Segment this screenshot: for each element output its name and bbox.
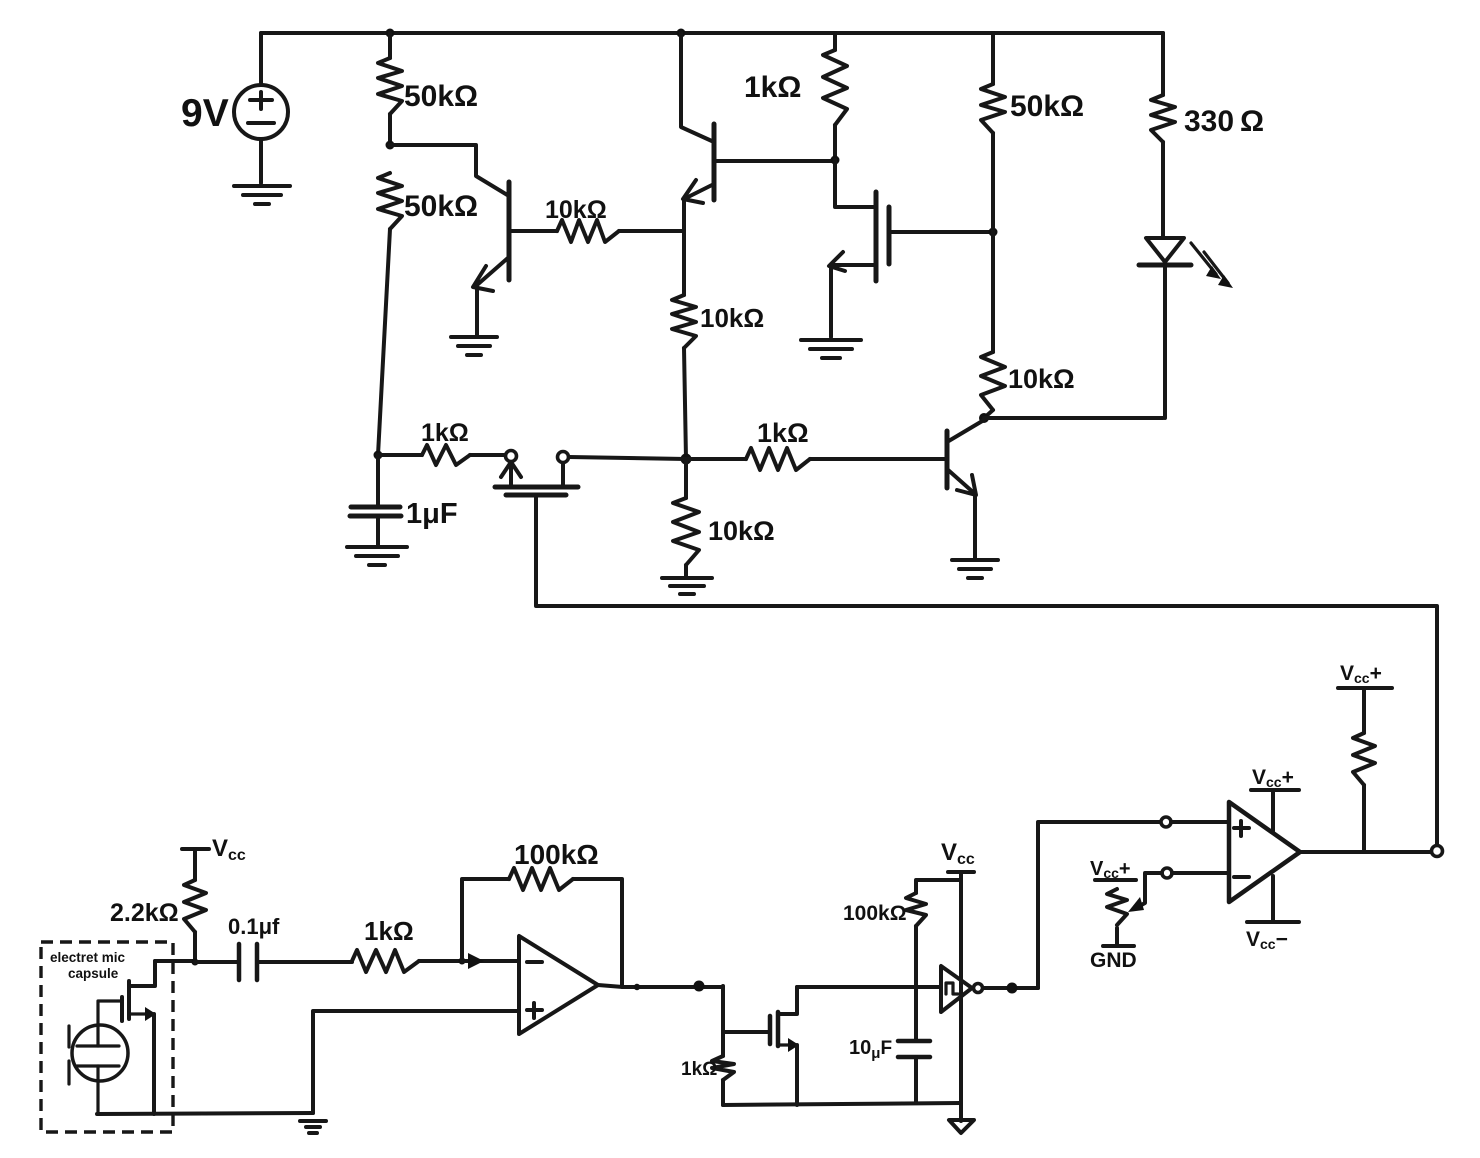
wire R12 to node J <box>193 932 197 962</box>
svg-text:1kΩ: 1kΩ <box>681 1059 717 1080</box>
wire Vcc down through schmitt to gnd <box>959 872 963 1121</box>
wire R17 to output <box>1362 785 1366 852</box>
ground under Q1 <box>451 337 497 355</box>
schmitt trigger U3 hysteresis glyph <box>946 983 958 994</box>
LED D1 cathode bar <box>1139 263 1191 268</box>
resistor R13 1k horizontal <box>352 950 419 972</box>
comparator U2 minus mark <box>1234 875 1249 879</box>
wire ground to opamp U1 plus input <box>313 1011 519 1113</box>
wire M3 drain to schmitt input <box>797 985 941 989</box>
transistor Q3 collector <box>947 420 984 442</box>
node K junction dot <box>459 958 466 965</box>
node N junction dot <box>1007 983 1018 994</box>
signal arrow into opamp U1 <box>462 959 519 963</box>
schmitt trigger U3 triangle <box>941 966 972 1012</box>
mic capsule bottom stub <box>96 1066 99 1114</box>
ground under C1 <box>347 547 407 565</box>
resistor R7 10k right <box>981 352 1005 410</box>
capacitor C3 10uF plates <box>898 1041 930 1057</box>
svg-text:10kΩ: 10kΩ <box>1008 364 1075 394</box>
transistor Q3 emitter with arrow <box>947 469 976 558</box>
svg-text:10kΩ: 10kΩ <box>545 196 607 224</box>
wire R7 to node H <box>984 410 993 418</box>
mosfet M1 channel bar <box>874 192 879 281</box>
node L small dot <box>634 984 640 990</box>
svg-text:1kΩ: 1kΩ <box>757 418 809 448</box>
mosfet M2 bottom plate <box>506 493 566 498</box>
op-amp U1 plus mark <box>527 1003 542 1018</box>
wire node J to C2 <box>195 960 239 964</box>
wire R16 to C3 <box>914 926 918 1041</box>
wire circle to comparator plus <box>1171 820 1229 824</box>
resistor R4 10k vertical <box>672 295 696 348</box>
svg-text:50kΩ: 50kΩ <box>404 190 478 223</box>
terminal circle comparator plus <box>1161 817 1171 827</box>
wire node E to R9 <box>686 457 746 461</box>
op-amp U1 minus mark <box>527 960 542 964</box>
wire R2 down to node C <box>378 229 390 455</box>
resistor R5 1k vertical top <box>823 50 847 125</box>
wire R8 to LED D1 <box>1161 142 1165 238</box>
wire R15 to bottom rail <box>721 1080 725 1105</box>
svg-text:1kΩ: 1kΩ <box>421 419 469 447</box>
wire node M down to R15 <box>721 986 725 1056</box>
wire R11 to ground <box>684 565 688 576</box>
resistor R6 50k right <box>981 84 1005 133</box>
op-amp U1 output wire <box>598 985 723 987</box>
battery V1 9V source wires <box>259 33 263 183</box>
svg-text:50kΩ: 50kΩ <box>404 80 478 113</box>
wire node B to Q1 collector <box>390 145 509 196</box>
wire R5 to node F <box>833 33 837 160</box>
transistor Q1 base bar <box>507 182 512 280</box>
svg-text:2.2kΩ: 2.2kΩ <box>110 899 179 927</box>
mosfet M1 gate bar <box>887 207 892 264</box>
ground at opamp U1 plus <box>300 1121 326 1133</box>
wire R3 to center node <box>619 229 684 233</box>
capacitor C1 1uF plates <box>350 507 401 516</box>
svg-text:GND: GND <box>1090 949 1137 972</box>
node F junction dot <box>831 156 840 165</box>
svg-text:330 Ω: 330 Ω <box>1184 105 1264 138</box>
ground triangle bottom <box>949 1120 974 1133</box>
terminal circle comparator minus <box>1162 868 1172 878</box>
wire Vcc to R12 <box>193 849 197 880</box>
wire schmitt to comparator plus <box>1038 822 1161 988</box>
feedback wire down to output <box>573 879 622 987</box>
node D rail junction dot <box>677 29 686 38</box>
resistor R10 1k horizontal left <box>422 445 470 465</box>
svg-text:10μF: 10μF <box>849 1037 892 1062</box>
wire mic bottom rail <box>97 1113 313 1114</box>
svg-text:1μF: 1μF <box>406 498 458 530</box>
svg-text:100kΩ: 100kΩ <box>843 902 907 925</box>
svg-text:electret mic: electret mic <box>50 950 126 965</box>
node M junction dot <box>694 981 705 992</box>
Vcc terminal bar schmitt <box>948 870 974 874</box>
capacitor C1 wire from node C <box>376 455 380 506</box>
LED D1 light arrows <box>1191 243 1228 283</box>
wire M2 source down long link <box>536 495 1437 845</box>
mic JFET source lead with arrow <box>129 1012 146 1015</box>
wire R10 to M2 terminal <box>470 453 505 457</box>
mosfet M3 gate bar <box>768 1016 773 1044</box>
svg-text:1kΩ: 1kΩ <box>744 71 801 104</box>
ground under battery V1 <box>234 186 290 204</box>
mosfet M1 gate lead <box>889 230 993 234</box>
wire top supply rail <box>261 31 1163 35</box>
node C junction dot <box>374 451 383 460</box>
wire rail to R1 <box>388 33 392 58</box>
wire R4 to node E <box>684 348 686 459</box>
resistor R9 1k horizontal <box>746 448 810 470</box>
schmitt output wire <box>983 986 1038 990</box>
wire R1 to node B <box>388 114 392 145</box>
mosfet M2 terminal circle 1 <box>506 451 517 462</box>
LED D1 triangle <box>1146 238 1184 262</box>
wire Q2 emitter to R4 <box>682 232 686 295</box>
svg-text:100kΩ: 100kΩ <box>514 839 599 870</box>
wire LED D1 to node H wire <box>1163 265 1167 418</box>
wire M2 terminal2 to node E <box>569 457 686 459</box>
resistor R2 50k <box>378 173 402 229</box>
resistor R16 100k <box>906 893 926 926</box>
svg-text:10kΩ: 10kΩ <box>700 303 764 333</box>
svg-text:0.1μf: 0.1μf <box>228 914 280 939</box>
comparator U2 plus mark <box>1234 821 1249 836</box>
transistor Q3 base bar <box>945 431 950 488</box>
schmitt trigger U3 bubble <box>974 984 983 993</box>
transistor Q2 emitter <box>683 180 714 232</box>
battery V1 9V source circle <box>234 85 288 139</box>
wire circle to comparator minus <box>1172 871 1229 875</box>
Vcc terminal bar mic bias <box>182 847 209 851</box>
transistor Q3 base lead <box>810 457 947 461</box>
mosfet M3 drain lead <box>778 987 797 1014</box>
resistor R3 10k horizontal <box>557 220 619 242</box>
capacitor C2 0.1uF plates <box>239 944 257 980</box>
wire C2 to R13 <box>257 960 352 964</box>
mosfet M3 source lead with arrow <box>778 1043 790 1046</box>
wire minus circle to potentiometer wiper <box>1134 873 1162 909</box>
comparator U2 Vcc- lead and bar <box>1247 876 1299 922</box>
ground under M1 <box>801 340 861 358</box>
transistor Q2 collector <box>681 33 714 142</box>
node A rail junction dot <box>386 29 395 38</box>
mic gate wire to capsule <box>98 1001 122 1046</box>
wire bottom rail <box>723 1103 960 1105</box>
wire 330 branch from rail <box>1161 33 1165 95</box>
ground under R11 <box>662 578 712 594</box>
mic JFET drain lead <box>129 961 155 986</box>
capacitor C1 to ground <box>376 516 380 545</box>
svg-text:9V: 9V <box>181 92 229 135</box>
node B junction dot <box>386 141 395 150</box>
wire gate branch to M3 <box>723 1030 770 1034</box>
resistor R8 330 <box>1151 95 1175 142</box>
svg-text:10kΩ: 10kΩ <box>708 516 775 546</box>
transistor Q1 emitter <box>473 257 509 335</box>
wire node F to M1 drain <box>835 160 876 207</box>
resistor R12 2.2k <box>184 880 206 932</box>
transistor Q1 base lead <box>509 229 557 233</box>
mic capsule plates <box>77 1046 119 1066</box>
node H junction dot <box>979 413 989 423</box>
transistor Q2 base lead <box>714 159 833 163</box>
potentiometer RV1 resistor <box>1107 889 1127 925</box>
resistor R14 100k feedback <box>509 868 573 890</box>
comparator U2 triangle <box>1229 802 1300 902</box>
potentiometer RV1 bottom bar <box>1103 928 1134 946</box>
node E junction dot <box>681 454 692 465</box>
potentiometer RV1 top bar <box>1095 878 1136 882</box>
mosfet M2 gate1 arrow <box>501 462 521 486</box>
op-amp U1 triangle <box>519 936 598 1034</box>
wire Vcc branch to R16 <box>916 880 961 893</box>
terminal circle link right <box>1432 846 1443 857</box>
mic JFET channel bar <box>127 981 131 1019</box>
mosfet M2 terminal circle 2 <box>558 452 569 463</box>
wire node E to R11 <box>684 459 688 498</box>
svg-text:1kΩ: 1kΩ <box>364 916 414 946</box>
node G junction dot <box>989 228 998 237</box>
mosfet M2 top plate <box>495 485 578 490</box>
mic capsule left ticks <box>67 1026 70 1084</box>
mosfet M1 source lead with arrow <box>829 252 876 337</box>
wire R13 to node K <box>419 959 462 963</box>
wire rail to R6 <box>991 33 995 84</box>
resistor R1 50k <box>378 58 402 114</box>
electret mic capsule dashed box <box>41 942 173 1132</box>
comparator U2 Vcc+ bar and lead <box>1251 790 1299 831</box>
resistor R15 1k vertical <box>712 1056 734 1080</box>
ground under Q3 <box>952 560 998 578</box>
svg-text:50kΩ: 50kΩ <box>1010 90 1084 123</box>
wire mic out to node J <box>155 959 195 963</box>
feedback wire up from node K <box>462 879 509 961</box>
transistor Q2 base bar <box>712 124 717 200</box>
resistor R11 10k vertical <box>673 498 699 565</box>
comparator U2 output wire <box>1300 850 1431 854</box>
wire R6 to node G to R7 <box>991 133 995 352</box>
wire C3 to bottom rail <box>914 1057 918 1103</box>
mic capsule circle <box>72 1025 128 1081</box>
mosfet M3 channel bar <box>776 1012 781 1046</box>
mosfet M2 gate2 stub <box>561 463 565 486</box>
node J junction dot <box>192 959 199 966</box>
resistor R17 pullup <box>1353 733 1375 785</box>
battery V1 plus minus marks <box>248 92 274 123</box>
wire node C to R10 <box>378 453 422 457</box>
wire node H to LED branch <box>984 416 1163 420</box>
mic JFET gate bar <box>120 997 124 1021</box>
svg-text:capsule: capsule <box>68 966 119 981</box>
resistor R17 Vcc+ bar and lead <box>1338 688 1392 733</box>
